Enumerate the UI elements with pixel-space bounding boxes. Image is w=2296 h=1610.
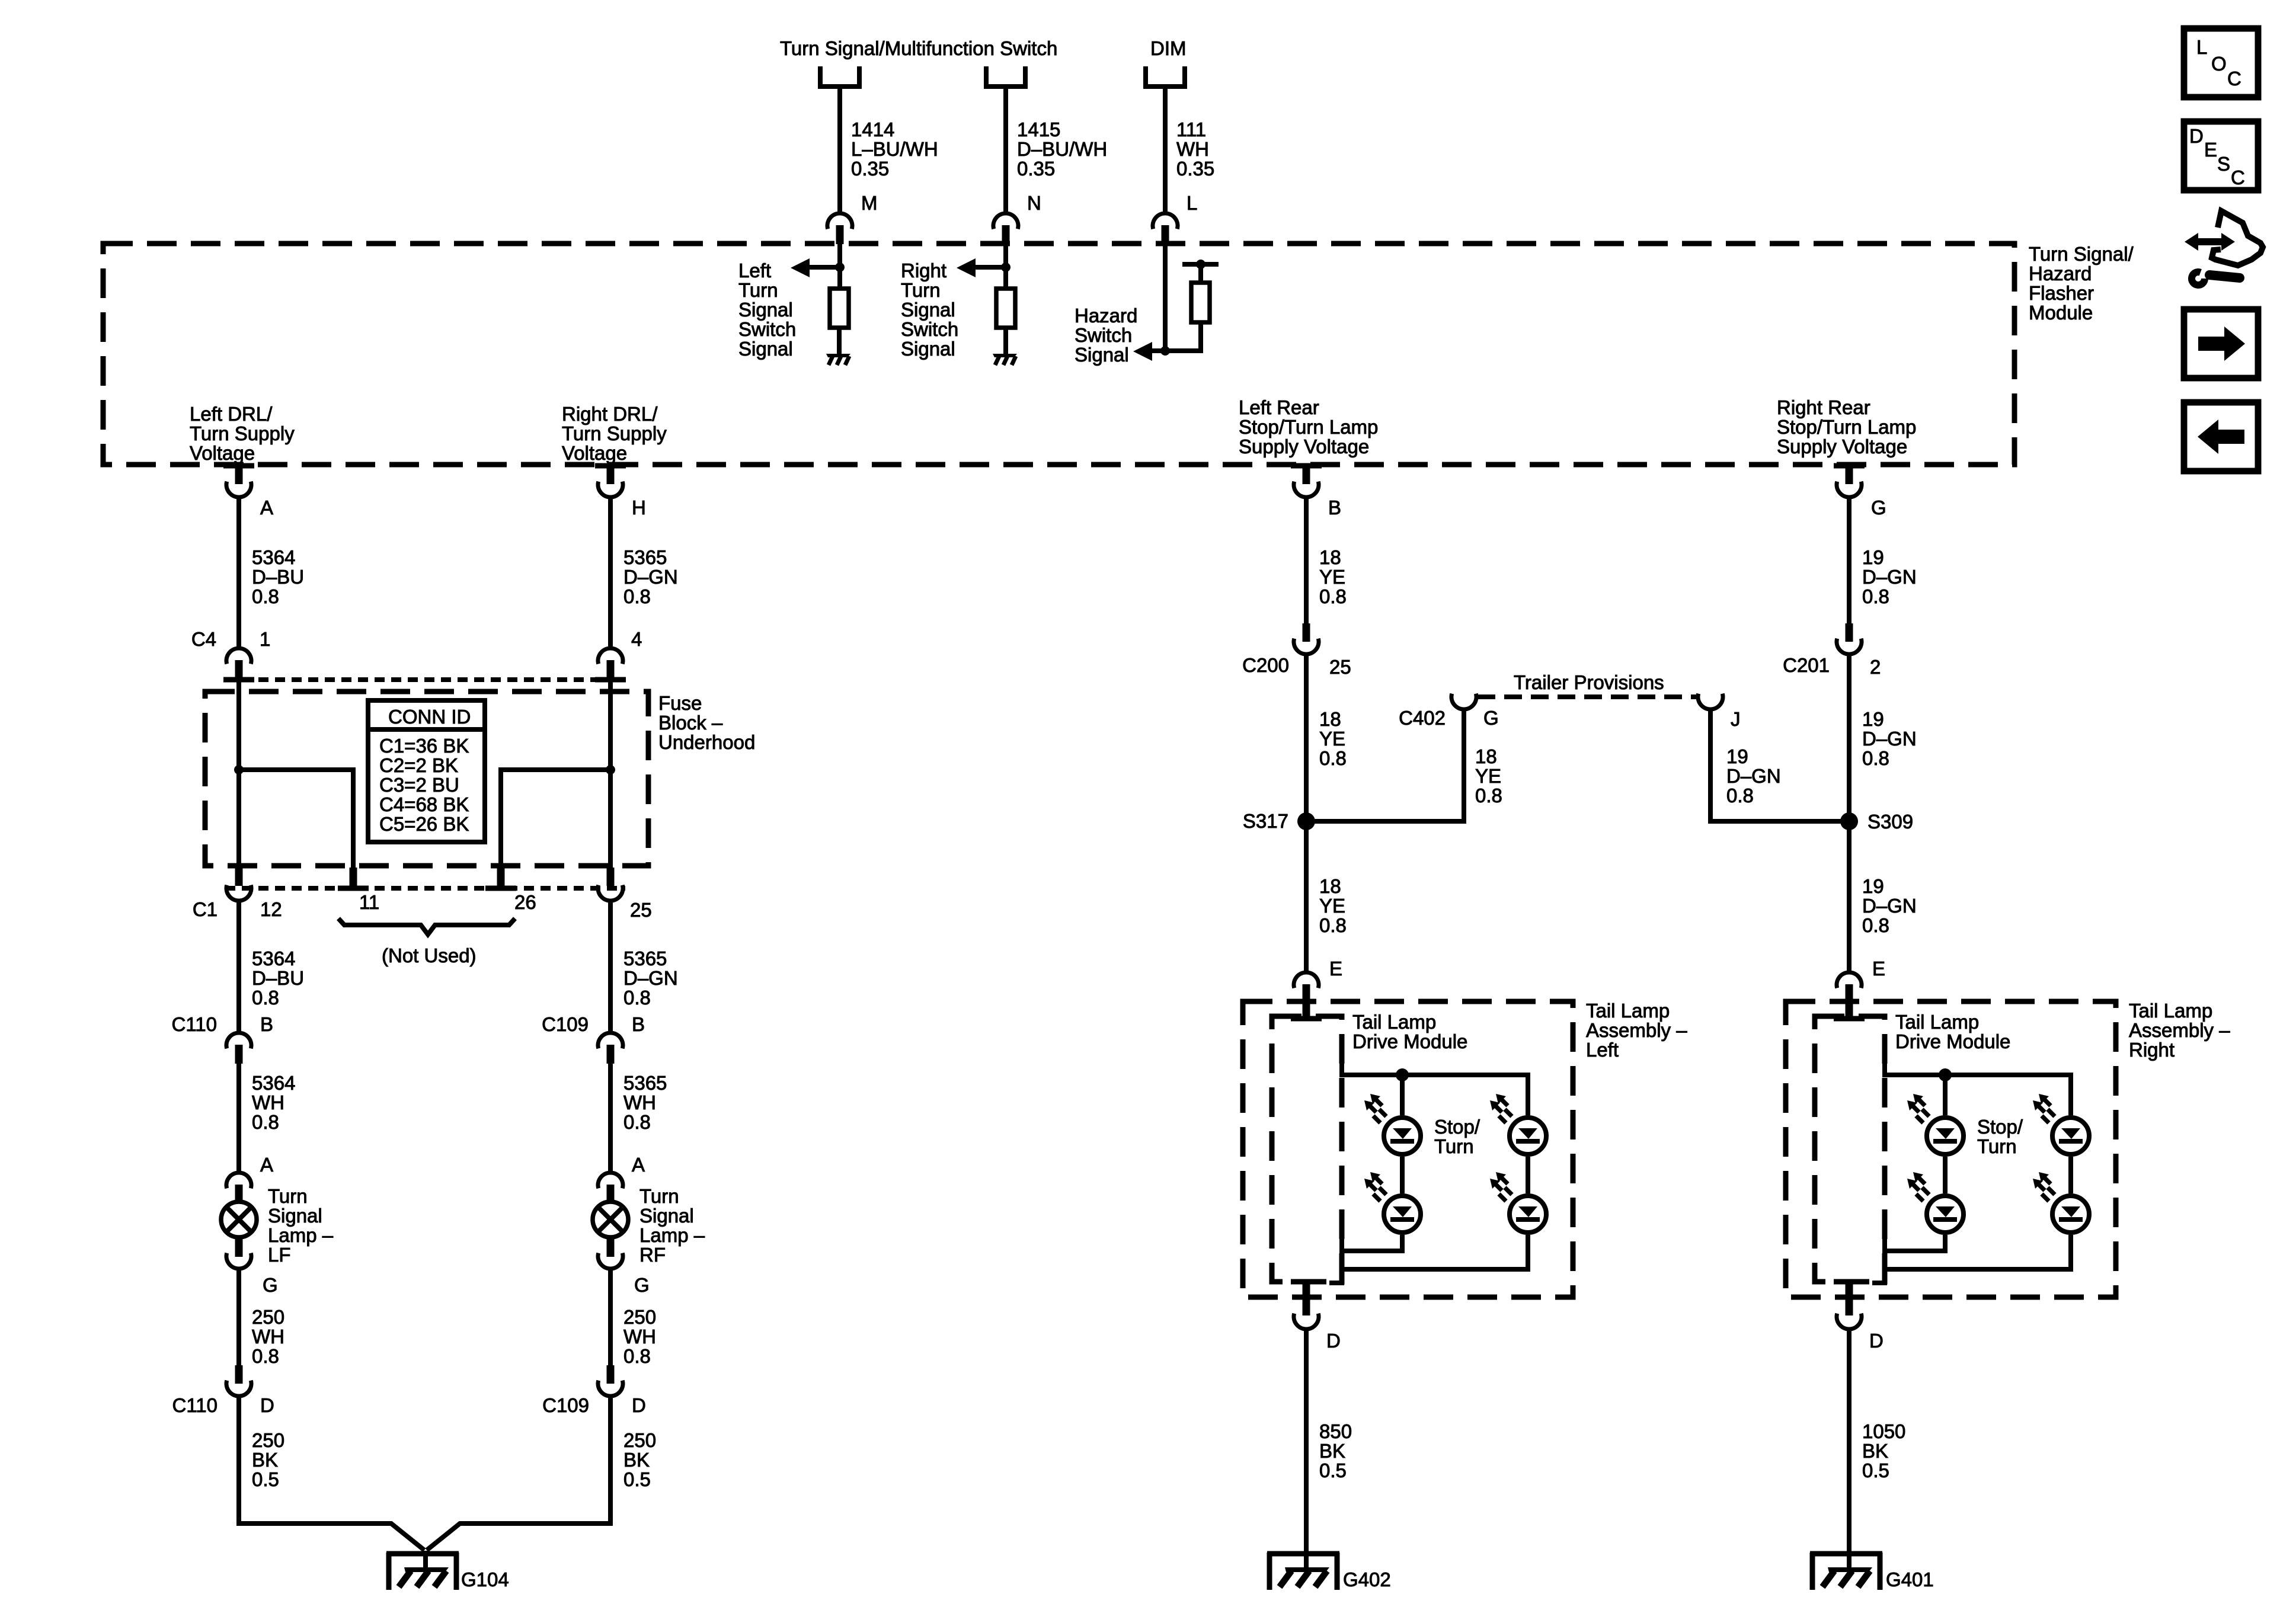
Turn Signal Lamp - LF <box>221 1202 257 1237</box>
splice S309 <box>1840 812 1858 830</box>
svg-text:0.8: 0.8 <box>623 585 651 607</box>
svg-text:1415: 1415 <box>1017 119 1060 140</box>
svg-text:850: 850 <box>1319 1420 1352 1442</box>
svg-text:5365: 5365 <box>623 948 667 969</box>
wire pin B to C200 <box>1304 499 1309 625</box>
node on LED rail Left <box>1396 1068 1409 1081</box>
wire C402-G to S317 branch <box>1306 711 1464 821</box>
svg-text:Right DRL/: Right DRL/ <box>562 403 658 425</box>
svg-text:D: D <box>1326 1330 1341 1352</box>
svg-text:26: 26 <box>514 891 536 913</box>
lamp connector A left <box>226 1173 251 1204</box>
svg-text:Turn Signal/Multifunction Swit: Turn Signal/Multifunction Switch <box>780 37 1057 59</box>
wire pin A to C4-1 <box>236 499 241 646</box>
fuse block pin 26 stub <box>497 868 505 886</box>
svg-text:Assembly –: Assembly – <box>1586 1019 1687 1041</box>
connector C1 cavity 25 <box>607 868 615 886</box>
wire inside fuse block right <box>608 680 613 868</box>
svg-text:LF: LF <box>268 1244 291 1266</box>
svg-text:D–GN: D–GN <box>1862 566 1917 588</box>
svg-text:5364: 5364 <box>252 546 295 568</box>
svg-text:C: C <box>2231 167 2245 188</box>
LED 2 Right <box>1943 1157 1948 1193</box>
svg-text:2: 2 <box>1870 656 1881 678</box>
svg-text:Stop/Turn Lamp: Stop/Turn Lamp <box>1239 416 1378 438</box>
svg-text:0.8: 0.8 <box>623 1111 651 1133</box>
svg-text:C2=2 BK: C2=2 BK <box>379 754 458 776</box>
svg-text:D: D <box>1869 1330 1884 1352</box>
wire T-bar to hazard resistor <box>1198 264 1203 283</box>
wire lamp LF to C110-D <box>236 1270 241 1365</box>
LED column2 return Left <box>1329 1235 1528 1283</box>
LED supply rail Right <box>1885 1046 2071 1115</box>
svg-text:Lamp –: Lamp – <box>639 1224 705 1246</box>
LED 1 Left <box>1364 1094 1421 1154</box>
svg-text:Right: Right <box>901 260 946 281</box>
svg-text:C4=68 BK: C4=68 BK <box>379 793 469 815</box>
C4 connector dotted row <box>225 677 625 682</box>
svg-text:G401: G401 <box>1886 1569 1934 1590</box>
svg-text:Turn: Turn <box>1434 1135 1474 1157</box>
module pin T-bar top Left <box>1291 1016 1322 1022</box>
svg-text:Block –: Block – <box>658 712 723 734</box>
node junction hazard <box>1160 346 1170 356</box>
hazard T-bar with node <box>1182 262 1219 267</box>
svg-text:C109: C109 <box>542 1013 589 1035</box>
svg-text:Module: Module <box>2029 302 2093 324</box>
svg-text:YE: YE <box>1319 566 1345 588</box>
svg-text:D: D <box>632 1394 646 1416</box>
svg-text:5364: 5364 <box>252 1072 295 1094</box>
icon diagnostic wrench <box>2212 211 2263 265</box>
svg-text:C402: C402 <box>1399 707 1446 729</box>
svg-text:DIM: DIM <box>1150 37 1187 59</box>
wire C200 to S317 <box>1304 656 1309 821</box>
connector E tail lamp Left <box>1294 972 1319 1003</box>
svg-text:B: B <box>1328 497 1341 518</box>
svg-text:Underhood: Underhood <box>658 731 755 753</box>
wire D to ground G401 <box>1847 1331 1851 1551</box>
svg-text:Switch: Switch <box>738 318 796 340</box>
svg-text:BK: BK <box>252 1449 278 1471</box>
svg-text:18: 18 <box>1319 546 1341 568</box>
svg-text:G: G <box>634 1274 650 1296</box>
module pin T-bar top Right <box>1834 1016 1865 1022</box>
wire C110-B to lamp LF <box>236 1064 241 1172</box>
svg-text:Hazard: Hazard <box>2029 263 2092 284</box>
connector C109 cavity D <box>607 1365 615 1384</box>
svg-text:B: B <box>632 1013 645 1035</box>
LED column1 return Left <box>1342 1223 1402 1251</box>
svg-text:BK: BK <box>1319 1440 1345 1462</box>
internal link to pin 11 <box>239 770 353 868</box>
svg-text:C1=36 BK: C1=36 BK <box>379 735 469 757</box>
module pin T-bar bottom Right <box>1834 1279 1865 1285</box>
svg-text:0.35: 0.35 <box>1176 158 1214 180</box>
Fuse Block - Underhood dashed box <box>205 692 648 866</box>
svg-text:0.8: 0.8 <box>1319 914 1347 936</box>
svg-text:Turn Signal/: Turn Signal/ <box>2029 243 2134 265</box>
svg-text:Drive Module: Drive Module <box>1352 1030 1467 1052</box>
LED column2 return Right <box>1872 1235 2071 1283</box>
svg-text:YE: YE <box>1319 895 1345 917</box>
svg-text:0.8: 0.8 <box>1319 585 1347 607</box>
wire from switch to connector M <box>837 87 842 212</box>
module pin T-bar bottom Left <box>1291 1279 1322 1285</box>
svg-text:BK: BK <box>1862 1440 1888 1462</box>
connector bracket: Turn Signal/Multifunction Switch pin N <box>986 66 1025 87</box>
node on LED rail Right <box>1939 1068 1952 1081</box>
svg-text:L: L <box>2196 36 2207 58</box>
svg-text:Right: Right <box>2129 1039 2175 1061</box>
svg-text:0.8: 0.8 <box>623 1345 651 1367</box>
svg-text:12: 12 <box>260 898 282 920</box>
LED 4 Left <box>1526 1157 1530 1193</box>
svg-text:J: J <box>1731 708 1741 730</box>
arrow Right Turn Signal Switch Signal <box>975 265 1006 270</box>
svg-text:Turn: Turn <box>901 279 941 301</box>
svg-text:Tail Lamp: Tail Lamp <box>1895 1011 1979 1033</box>
svg-text:A: A <box>632 1154 645 1176</box>
svg-text:1: 1 <box>260 628 270 650</box>
svg-text:11: 11 <box>359 891 379 913</box>
svg-text:0.5: 0.5 <box>1862 1459 1889 1481</box>
connector bracket: DIM pin L <box>1146 66 1185 87</box>
wire C110-D to ground <box>239 1398 424 1550</box>
svg-text:5365: 5365 <box>623 1072 667 1094</box>
svg-text:N: N <box>1027 192 1041 214</box>
ground G402 <box>1267 1551 1339 1590</box>
LED column1 return Right <box>1885 1223 1945 1251</box>
wire resistor to ground N branch <box>1003 328 1008 356</box>
svg-text:D: D <box>2189 125 2204 147</box>
connector C402 cavity G <box>1451 694 1476 709</box>
icon box previous arrow <box>2184 402 2258 471</box>
svg-text:G: G <box>1871 497 1886 518</box>
svg-text:D–GN: D–GN <box>623 566 678 588</box>
node junction on M branch <box>835 263 845 272</box>
svg-text:S317: S317 <box>1243 810 1288 832</box>
svg-text:Trailer Provisions: Trailer Provisions <box>1514 671 1664 693</box>
signal ground M branch <box>826 354 850 365</box>
svg-text:C3=2 BU: C3=2 BU <box>379 774 459 796</box>
svg-text:L: L <box>1187 192 1197 214</box>
Tail Lamp Drive Module dashed box Left <box>1272 1016 1342 1282</box>
svg-text:CONN ID: CONN ID <box>388 706 471 728</box>
svg-text:D–GN: D–GN <box>1862 895 1917 917</box>
wire pin G to C201 <box>1847 499 1851 625</box>
svg-text:19: 19 <box>1862 546 1884 568</box>
svg-text:D–BU: D–BU <box>252 566 304 588</box>
lamp connector G right <box>607 1239 615 1257</box>
svg-text:19: 19 <box>1862 875 1884 897</box>
LED 4 Right <box>2068 1157 2073 1193</box>
svg-text:WH: WH <box>252 1092 284 1113</box>
module pin B <box>1291 463 1322 469</box>
connector D tail lamp Right <box>1846 1284 1853 1315</box>
svg-text:4: 4 <box>631 628 642 650</box>
svg-text:5364: 5364 <box>252 948 295 969</box>
svg-text:D–GN: D–GN <box>1726 765 1781 787</box>
svg-text:Voltage: Voltage <box>190 442 255 464</box>
wire lamp RF to C109-D <box>608 1270 613 1365</box>
wire hazard resistor to junction <box>1152 322 1201 351</box>
svg-text:250: 250 <box>623 1429 656 1451</box>
wire C1-12 to C110-B <box>236 902 241 1032</box>
svg-text:Turn: Turn <box>1977 1135 2017 1157</box>
LED 3 Right <box>2033 1094 2089 1154</box>
connector C109 cavity B <box>598 1033 623 1064</box>
connector L into flasher module <box>1153 213 1178 244</box>
wire N inside module <box>1003 244 1008 289</box>
wire M inside module <box>837 244 842 289</box>
LED 3 Left <box>1490 1094 1546 1154</box>
svg-text:0.8: 0.8 <box>1862 747 1889 769</box>
connector C4 cavity 4 <box>598 648 623 679</box>
resistor hazard branch <box>1191 283 1210 322</box>
svg-text:Signal: Signal <box>268 1205 322 1227</box>
svg-text:0.8: 0.8 <box>252 1345 279 1367</box>
svg-text:Tail Lamp: Tail Lamp <box>2129 1000 2212 1022</box>
svg-text:WH: WH <box>623 1092 656 1113</box>
svg-text:0.8: 0.8 <box>623 987 651 1009</box>
svg-text:Supply Voltage: Supply Voltage <box>1777 436 1907 457</box>
Tail Lamp Assembly - Left dashed box <box>1243 1001 1573 1297</box>
svg-text:D–BU/WH: D–BU/WH <box>1017 138 1107 160</box>
svg-text:25: 25 <box>1329 656 1351 678</box>
svg-text:C: C <box>2227 68 2241 89</box>
svg-text:Stop/Turn Lamp: Stop/Turn Lamp <box>1777 416 1916 438</box>
svg-text:0.8: 0.8 <box>1319 747 1347 769</box>
svg-text:Signal: Signal <box>738 299 793 321</box>
C1 connector dotted row <box>225 886 625 891</box>
svg-text:Left DRL/: Left DRL/ <box>190 403 273 425</box>
connector M into flasher module <box>827 213 852 244</box>
svg-text:Signal: Signal <box>901 338 955 360</box>
svg-text:B: B <box>260 1013 273 1035</box>
module pin A <box>223 463 254 469</box>
svg-text:Signal: Signal <box>1075 344 1129 366</box>
svg-text:1414: 1414 <box>851 119 894 140</box>
svg-text:YE: YE <box>1319 728 1345 750</box>
svg-text:WH: WH <box>623 1326 656 1347</box>
svg-text:Signal: Signal <box>901 299 955 321</box>
svg-text:A: A <box>260 497 273 518</box>
svg-text:G: G <box>1483 707 1499 729</box>
LED 1 Right <box>1907 1094 1964 1154</box>
svg-text:D–GN: D–GN <box>623 967 678 989</box>
svg-text:Signal: Signal <box>639 1205 694 1227</box>
svg-text:0.8: 0.8 <box>252 585 279 607</box>
connector C201 cavity 2 <box>1846 623 1853 642</box>
svg-text:Drive Module: Drive Module <box>1895 1030 2010 1052</box>
svg-text:E: E <box>2204 139 2217 161</box>
svg-text:D–BU: D–BU <box>252 967 304 989</box>
wire C109-B to lamp RF <box>608 1064 613 1172</box>
svg-text:C201: C201 <box>1783 654 1830 676</box>
svg-text:G: G <box>263 1274 278 1296</box>
svg-text:Voltage: Voltage <box>562 442 627 464</box>
svg-text:Left: Left <box>738 260 771 281</box>
wire C109-D to ground <box>427 1398 610 1550</box>
connector D tail lamp Left <box>1303 1284 1310 1315</box>
svg-text:S: S <box>2217 153 2230 175</box>
wire C402-J to S309 branch <box>1710 711 1849 821</box>
resistor on N branch <box>996 289 1015 328</box>
svg-text:D–GN: D–GN <box>1862 728 1917 750</box>
svg-text:RF: RF <box>639 1244 666 1266</box>
svg-text:D: D <box>260 1394 274 1416</box>
svg-text:25: 25 <box>630 899 652 921</box>
svg-text:Turn Supply: Turn Supply <box>190 422 295 444</box>
wire C1-25 to C109-B <box>608 902 613 1032</box>
svg-text:0.8: 0.8 <box>252 1111 279 1133</box>
wire pin H to C4-4 <box>608 499 613 646</box>
svg-text:E: E <box>1872 958 1885 980</box>
connector N into flasher module <box>993 213 1018 244</box>
svg-text:Switch: Switch <box>1075 324 1132 346</box>
node inside fuse block left <box>234 765 244 774</box>
svg-text:Fuse: Fuse <box>658 692 702 714</box>
wire S317 to E pin left <box>1304 821 1309 972</box>
svg-text:Supply Voltage: Supply Voltage <box>1239 436 1369 457</box>
svg-text:C110: C110 <box>172 1394 218 1416</box>
svg-text:M: M <box>861 192 878 214</box>
trailer provisions dashed link <box>1478 694 1697 699</box>
icon box DESC <box>2184 121 2258 190</box>
wire from DIM to connector L <box>1163 87 1168 212</box>
svg-text:0.5: 0.5 <box>252 1468 279 1490</box>
ground G104 <box>386 1551 459 1590</box>
svg-text:Tail Lamp: Tail Lamp <box>1586 1000 1670 1022</box>
resistor on M branch <box>830 289 849 328</box>
internal link to pin 26 <box>501 770 610 868</box>
connector C1 cavity 12 <box>235 868 243 886</box>
svg-text:0.8: 0.8 <box>1726 785 1754 806</box>
wire L inside module / hazard branch <box>1163 244 1168 351</box>
svg-text:Tail Lamp: Tail Lamp <box>1352 1011 1436 1033</box>
wire from switch to connector N <box>1003 87 1008 212</box>
svg-text:S309: S309 <box>1868 811 1913 833</box>
svg-text:E: E <box>1329 958 1342 980</box>
svg-text:WH: WH <box>252 1326 284 1347</box>
wire resistor to ground M branch <box>837 328 842 356</box>
lamp connector G left <box>235 1239 243 1257</box>
svg-text:G402: G402 <box>1343 1569 1391 1590</box>
svg-text:111: 111 <box>1176 119 1206 140</box>
svg-text:C200: C200 <box>1242 654 1289 676</box>
svg-text:O: O <box>2211 53 2227 75</box>
svg-text:C5=26 BK: C5=26 BK <box>379 813 469 835</box>
node inside fuse block right <box>606 765 615 774</box>
ground G401 <box>1810 1551 1882 1590</box>
svg-text:Assembly –: Assembly – <box>2129 1019 2230 1041</box>
svg-text:G104: G104 <box>461 1569 509 1590</box>
wire S309 to E pin right <box>1847 821 1851 972</box>
svg-text:18: 18 <box>1319 875 1341 897</box>
svg-text:0.5: 0.5 <box>623 1468 651 1490</box>
node junction on N branch <box>1001 263 1011 272</box>
svg-text:Turn: Turn <box>639 1185 679 1207</box>
svg-text:H: H <box>632 497 646 518</box>
svg-text:Switch: Switch <box>901 318 958 340</box>
svg-text:250: 250 <box>623 1306 656 1328</box>
svg-text:0.8: 0.8 <box>1475 785 1502 806</box>
Turn Signal Lamp - RF <box>593 1202 628 1237</box>
LED column 1 wire Right <box>1943 1075 1948 1115</box>
arrow Hazard Switch Signal <box>1152 348 1165 353</box>
svg-text:C1: C1 <box>193 898 218 920</box>
svg-text:Stop/: Stop/ <box>1434 1116 1480 1138</box>
svg-text:Right Rear: Right Rear <box>1777 396 1870 418</box>
Tail Lamp Assembly - Right dashed box <box>1786 1001 2116 1297</box>
connector C402 cavity J <box>1698 694 1723 709</box>
connector E tail lamp Right <box>1837 972 1862 1003</box>
icon box next arrow <box>2184 309 2258 378</box>
svg-text:Lamp –: Lamp – <box>268 1224 334 1246</box>
svg-text:Signal: Signal <box>738 338 793 360</box>
svg-text:1050: 1050 <box>1862 1420 1905 1442</box>
icon box LOC <box>2184 28 2258 97</box>
svg-text:Left Rear: Left Rear <box>1239 396 1319 418</box>
Turn Signal/Hazard Flasher Module dashed box <box>103 244 2014 465</box>
svg-text:YE: YE <box>1475 765 1501 787</box>
Tail Lamp Drive Module dashed box Right <box>1815 1016 1885 1282</box>
LED 2 Left <box>1400 1157 1405 1193</box>
svg-text:18: 18 <box>1475 745 1497 767</box>
connector C4 cavity 1 <box>226 648 251 679</box>
svg-text:250: 250 <box>252 1306 284 1328</box>
svg-text:19: 19 <box>1862 708 1884 730</box>
LED column 1 wire Left <box>1400 1075 1405 1115</box>
svg-text:Turn: Turn <box>738 279 778 301</box>
module pin G <box>1834 463 1865 469</box>
svg-text:250: 250 <box>252 1429 284 1451</box>
LED supply rail Left <box>1342 1046 1528 1115</box>
arrow Left Turn Signal Switch Signal <box>809 265 840 270</box>
connector C200 cavity 25 <box>1303 623 1310 642</box>
CONN ID table <box>368 700 485 842</box>
svg-text:WH: WH <box>1176 138 1209 160</box>
splice S317 <box>1297 812 1315 830</box>
brace Not Used <box>338 918 515 934</box>
svg-text:Turn Supply: Turn Supply <box>562 422 667 444</box>
svg-text:C4: C4 <box>191 628 216 650</box>
svg-text:0.35: 0.35 <box>851 158 889 180</box>
wire inside fuse block left <box>236 680 241 868</box>
svg-text:C109: C109 <box>542 1394 589 1416</box>
wire D to ground G402 <box>1304 1331 1309 1551</box>
svg-text:0.35: 0.35 <box>1017 158 1055 180</box>
connector C110 cavity D <box>235 1365 243 1384</box>
lamp connector A right <box>598 1173 623 1204</box>
signal ground N branch <box>993 354 1017 365</box>
fuse block pin 11 stub <box>350 868 357 886</box>
wire C201 to S309 <box>1847 656 1851 821</box>
svg-text:0.8: 0.8 <box>1862 914 1889 936</box>
module pin H <box>595 463 626 469</box>
svg-text:BK: BK <box>623 1449 650 1471</box>
svg-text:0.5: 0.5 <box>1319 1459 1347 1481</box>
svg-text:A: A <box>260 1154 273 1176</box>
svg-text:5365: 5365 <box>623 546 667 568</box>
connector C110 cavity B <box>226 1033 251 1064</box>
svg-text:18: 18 <box>1319 708 1341 730</box>
svg-text:L–BU/WH: L–BU/WH <box>851 138 938 160</box>
svg-text:19: 19 <box>1726 745 1748 767</box>
connector bracket: Turn Signal/Multifunction Switch pin M <box>820 66 859 87</box>
svg-text:Turn: Turn <box>268 1185 308 1207</box>
